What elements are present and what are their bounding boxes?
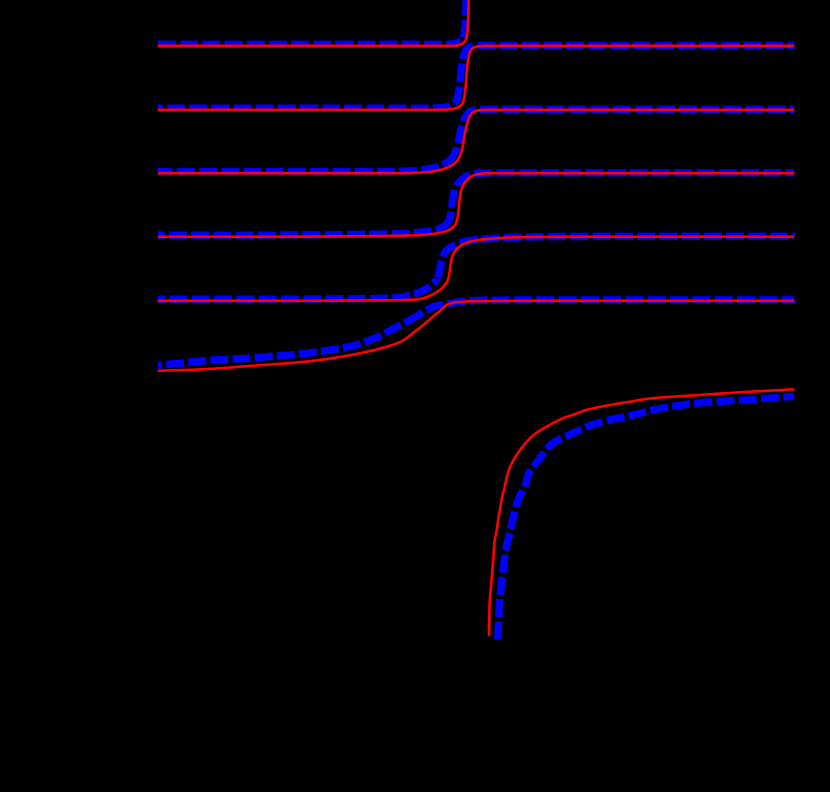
blue dashed approximation curve B6 (right) bbox=[415, 300, 794, 317]
red solid exact curve R2 bbox=[158, 46, 794, 110]
blue dashed approximation curve B3 (right) bbox=[454, 109, 794, 155]
blue dashed approximation curve B5 (left) bbox=[158, 279, 437, 299]
blue dashed approximation curve B4 (right) bbox=[448, 173, 794, 223]
blue dashed approximation curve B4 (left) bbox=[158, 223, 448, 236]
red solid exact curve R7 (bottom) bbox=[489, 389, 794, 636]
blue dashed approximation curve B7 (bottom) bbox=[498, 396, 794, 639]
blue dashed approximation curve B1 (rise) bbox=[458, 0, 467, 42]
red solid exact curve R6 bbox=[158, 301, 794, 371]
blue dashed approximation curve B3 (left) bbox=[158, 155, 454, 172]
red solid exact curve R4 bbox=[158, 173, 794, 237]
red solid exact curve R3 bbox=[158, 110, 794, 173]
red solid exact curve R1 bbox=[158, 0, 469, 46]
blue dashed approximation curve B2 (left) bbox=[158, 79, 460, 108]
blue dashed approximation curve B1 (flat) bbox=[158, 42, 458, 44]
red solid exact curve R5 bbox=[158, 237, 794, 301]
blue dashed approximation curve B2 (right) bbox=[460, 45, 794, 79]
blue dashed approximation curve B5 (right) bbox=[437, 236, 794, 279]
blue dashed approximation curve B6 (left) bbox=[158, 317, 415, 365]
